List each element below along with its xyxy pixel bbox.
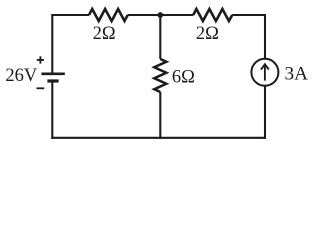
- wire left vertical lower (battery - plate to bottom corner): [51, 82, 53, 139]
- battery V1 minus sign: [37, 87, 45, 89]
- resistor R2 zigzag: [193, 9, 232, 21]
- node A junction dot: [157, 12, 163, 18]
- battery V1 positive plate (long): [41, 73, 64, 76]
- svg-text:2Ω: 2Ω: [93, 24, 116, 44]
- resistor R3 zigzag (6 ohm, vertical): [154, 59, 166, 92]
- wire top-left (battery to R1): [51, 14, 89, 16]
- current source I1 circle: [251, 59, 278, 86]
- wire right vertical lower (current source to bottom corner): [264, 87, 266, 139]
- battery V1 plus sign: [37, 56, 44, 63]
- battery V1 negative plate (short): [47, 79, 58, 82]
- wire left vertical upper (top corner to battery + plate): [51, 14, 53, 73]
- wire right vertical upper (top corner to current source): [264, 14, 266, 59]
- current source I1 arrow (up): [261, 64, 269, 80]
- wire top-middle (R1 to node A to R2): [128, 14, 194, 16]
- wire middle vertical upper (node A to R3): [159, 15, 161, 59]
- svg-text:3A: 3A: [285, 63, 309, 84]
- svg-text:2Ω: 2Ω: [196, 24, 219, 44]
- svg-text:6Ω: 6Ω: [172, 67, 195, 87]
- resistor R1 zigzag: [89, 9, 128, 21]
- wire top-right (R2 to right corner): [232, 14, 266, 16]
- wire middle vertical lower (R3 to bottom rail): [159, 92, 161, 139]
- svg-text:26V: 26V: [5, 66, 38, 86]
- wire bottom (full bottom rail): [51, 137, 266, 139]
